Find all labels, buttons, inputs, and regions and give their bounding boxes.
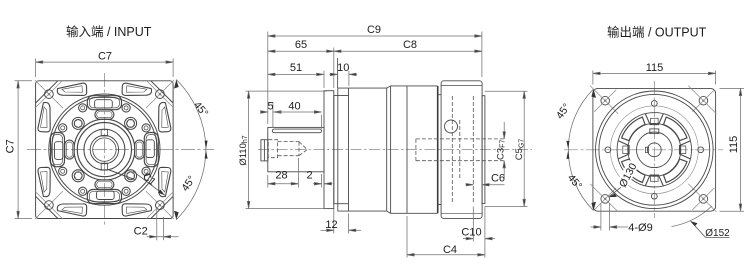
28 / 2 on line y=183.7 xyxy=(297,158,299,188)
115 top xyxy=(592,71,594,85)
svg-text:5: 5 xyxy=(268,100,274,112)
Ø152 arc + leader xyxy=(672,206,712,227)
8 wedge slots: two on top, rotated x4 xyxy=(57,83,151,95)
small hole circle on flange xyxy=(445,120,458,133)
input flange plate xyxy=(324,91,334,209)
svg-text:Ø152: Ø152 xyxy=(705,228,730,239)
svg-text:C6: C6 xyxy=(491,173,505,185)
C3F7 xyxy=(503,122,505,139)
svg-text:输出端 / OUTPUT: 输出端 / OUTPUT xyxy=(607,25,707,40)
svg-text:C2: C2 xyxy=(134,225,148,237)
45 deg arc left xyxy=(568,89,593,150)
12 at bottom xyxy=(333,209,335,234)
svg-text:45°: 45° xyxy=(554,101,573,121)
input collar block xyxy=(268,127,324,171)
bore xyxy=(647,143,661,157)
svg-text:28: 28 xyxy=(275,170,287,182)
C6 xyxy=(466,184,474,186)
svg-text:45°: 45° xyxy=(565,172,584,192)
C4 bottom xyxy=(406,216,408,258)
45 deg arc right xyxy=(176,80,206,150)
main centerline dash-dot xyxy=(258,149,532,151)
svg-text:C4: C4 xyxy=(443,244,457,256)
corner chamfer lines xyxy=(36,81,58,103)
svg-text:115: 115 xyxy=(728,136,740,154)
4 edge pockets with hex plugs xyxy=(87,96,121,110)
cylinder 1 xyxy=(338,88,387,211)
115 right xyxy=(720,87,745,89)
collar left boss xyxy=(261,140,268,161)
svg-text:C5G7: C5G7 xyxy=(514,139,525,161)
C7 left dim xyxy=(15,80,33,82)
svg-text:45°: 45° xyxy=(179,174,198,194)
8 small double holes on r46.5 xyxy=(57,102,152,197)
svg-text:2: 2 xyxy=(306,170,312,182)
right extension (flange face) xyxy=(481,32,483,78)
4 trapezoid tabs at cardinals xyxy=(645,114,663,125)
4 capsule slots at cardinals r35 xyxy=(95,110,114,119)
5 / 40 on line y=110.2 xyxy=(272,102,274,128)
svg-text:C7: C7 xyxy=(98,51,112,63)
svg-text:输入端 / INPUT: 输入端 / INPUT xyxy=(66,24,152,39)
hidden lines dashed xyxy=(416,96,504,204)
groove between housing and flange xyxy=(438,95,441,205)
output spigot xyxy=(482,96,485,204)
C2 dim bottom right xyxy=(156,207,158,240)
svg-text:Ø110h7: Ø110h7 xyxy=(238,135,249,165)
mounting holes N/E/S/W on r46.4 xyxy=(651,98,657,110)
output flange block xyxy=(441,81,482,219)
key slot capsule on top xyxy=(272,129,321,133)
big circles xyxy=(596,91,714,209)
corner bolt holes with 45deg cross xyxy=(35,80,174,219)
svg-text:10: 10 xyxy=(337,62,349,74)
centerline vertical xyxy=(103,73,105,226)
cylinder 2 (slightly bigger) xyxy=(387,86,438,213)
big body circles xyxy=(49,94,160,205)
flange square xyxy=(36,81,174,219)
bore + keyways xyxy=(90,135,118,163)
corner holes with diag crosses xyxy=(590,86,618,114)
centerline horizontal xyxy=(27,149,214,151)
chamfer chord SE xyxy=(109,170,134,179)
svg-text:40: 40 xyxy=(288,100,300,112)
svg-text:65: 65 xyxy=(295,39,307,51)
shared left extension line xyxy=(267,32,269,125)
svg-text:51: 51 xyxy=(290,62,302,74)
svg-text:C10: C10 xyxy=(461,226,481,238)
4 hex socket screws on diagonals r37 xyxy=(72,117,84,129)
C5G7 xyxy=(485,90,528,92)
square xyxy=(593,88,716,211)
C10 xyxy=(472,207,474,242)
4-Ø9 xyxy=(600,203,602,231)
joint dark line xyxy=(437,86,439,213)
51 / 10 on line y=74.4 xyxy=(323,71,325,88)
centerlines xyxy=(564,149,723,151)
inner circles xyxy=(74,119,135,180)
svg-text:12: 12 xyxy=(325,219,337,231)
hidden clamp screw (dashed) xyxy=(268,140,307,158)
narrow ring xyxy=(334,95,349,97)
svg-text:C3F7: C3F7 xyxy=(496,140,507,160)
svg-text:115: 115 xyxy=(646,62,664,74)
svg-text:C9: C9 xyxy=(367,24,381,36)
Ø110h7 (left of middle view) xyxy=(246,90,328,92)
8 arc slots xyxy=(664,117,688,141)
slot ring outer/inner xyxy=(617,113,691,187)
65 / C8 on shared line y=51.2 xyxy=(333,48,335,89)
C9 xyxy=(268,35,482,37)
C1 leader xyxy=(133,171,165,195)
hub keyway xyxy=(650,129,659,134)
Ø130 leader + text xyxy=(610,187,623,197)
svg-text:C8: C8 xyxy=(403,39,417,51)
svg-text:4-Ø9: 4-Ø9 xyxy=(628,222,652,234)
C7 top dim xyxy=(35,59,37,78)
hub circles xyxy=(637,132,673,168)
svg-text:45°: 45° xyxy=(191,99,210,119)
svg-text:C7: C7 xyxy=(5,139,17,153)
